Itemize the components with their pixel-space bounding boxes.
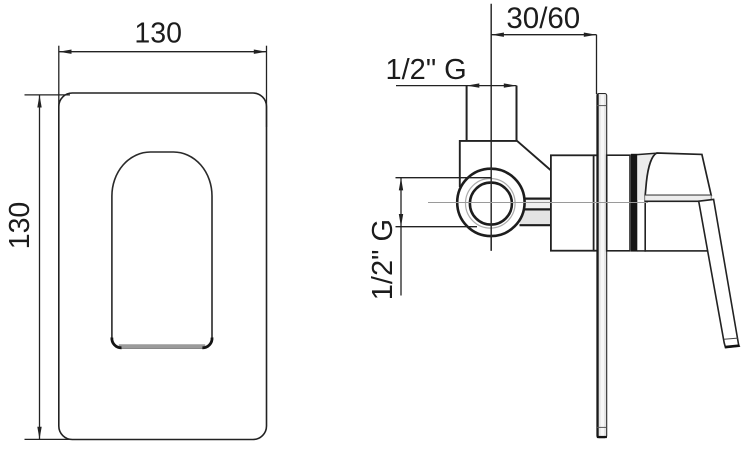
dimension 1/2 G top arrow left bbox=[467, 83, 480, 87]
centerline over circle vertical bbox=[490, 160, 492, 251]
dimension 30/60 extension line right bbox=[596, 35, 598, 94]
dimension 1/2 G left arrow down bbox=[399, 214, 403, 227]
front view wall plate bbox=[59, 93, 267, 440]
inlet thread highlight circle bbox=[466, 179, 516, 229]
horizontal centerline through valve axis bbox=[428, 202, 648, 204]
housing top edge to plate bbox=[594, 154, 598, 156]
left dimension extension line bottom bbox=[25, 438, 71, 440]
neck top edge bbox=[637, 153, 658, 155]
valve body outline bbox=[460, 141, 551, 187]
left dimension line 130 bbox=[39, 95, 41, 440]
svg-text:1/2" G: 1/2" G bbox=[367, 219, 399, 300]
housing bottom edge to plate bbox=[594, 250, 598, 252]
opening bottom left corner bold bbox=[112, 338, 122, 348]
front view handle opening bbox=[112, 152, 212, 348]
opening bottom right corner bold bbox=[202, 338, 212, 348]
top inlet pipe left wall bbox=[466, 86, 468, 141]
opening bottom shadow band bbox=[119, 344, 205, 348]
wall plate side view bbox=[597, 94, 607, 438]
left dimension extension line top bbox=[25, 94, 71, 96]
dimension 1/2 G left extension top bbox=[396, 177, 492, 179]
wall plate bottom edge bbox=[597, 436, 607, 438]
wall plate bottom cap line bbox=[597, 426, 607, 428]
side outlet top line bbox=[523, 198, 551, 200]
top dimension extension line left bbox=[58, 46, 60, 127]
cartridge housing block bbox=[551, 155, 594, 250]
side view vertical centerline bbox=[490, 4, 492, 251]
handle hub bbox=[607, 155, 630, 251]
left dimension arrow top bbox=[37, 95, 41, 108]
side outlet shading upper bbox=[522, 200, 551, 209]
dimension 1/2 G top leader line bbox=[396, 85, 517, 87]
top dimension arrow right bbox=[254, 50, 267, 54]
left dimension arrow bottom bbox=[37, 427, 41, 440]
dimension 30/60 arrow right bbox=[584, 33, 597, 37]
svg-text:30/60: 30/60 bbox=[506, 2, 580, 35]
neck bottom edge bbox=[637, 250, 646, 252]
top dimension arrow left bbox=[59, 50, 72, 54]
dimension 30/60 arrow left bbox=[491, 33, 504, 37]
inlet bore inner circle bbox=[470, 183, 512, 225]
svg-text:130: 130 bbox=[134, 17, 182, 49]
handle o-ring dark band bbox=[631, 154, 637, 252]
side outlet bottom line bbox=[520, 224, 551, 226]
inlet boss outer circle bbox=[457, 169, 524, 236]
svg-text:130: 130 bbox=[4, 202, 36, 250]
side outlet shading lower bbox=[520, 210, 551, 224]
wall plate highlight bbox=[601, 95, 604, 436]
neck shading bbox=[637, 153, 657, 200]
dimension 30/60 line bbox=[491, 34, 596, 36]
top inlet pipe right wall bbox=[516, 86, 518, 141]
top dimension line 130 bbox=[59, 51, 267, 53]
top dimension extension line right bbox=[266, 46, 268, 127]
handle cone gray band bbox=[645, 195, 712, 201]
dimension 1/2 G left arrow up bbox=[399, 178, 403, 191]
wall plate top cap line bbox=[597, 105, 607, 107]
dimension 1/2 G left line bbox=[400, 178, 402, 296]
dimension 1/2 G left extension bottom bbox=[396, 226, 478, 228]
dimension 1/2 G top arrow right bbox=[504, 83, 517, 87]
handle lower cylinder bbox=[645, 201, 711, 251]
svg-text:1/2" G: 1/2" G bbox=[386, 54, 467, 86]
handle cone upper bbox=[645, 153, 711, 195]
lever tip cap line bbox=[724, 338, 738, 339]
side outlet middle line bbox=[521, 208, 551, 210]
lever tip bottom edge bbox=[725, 346, 739, 347]
lever arm bbox=[699, 199, 740, 347]
wall plate left bold edge bbox=[596, 94, 598, 437]
